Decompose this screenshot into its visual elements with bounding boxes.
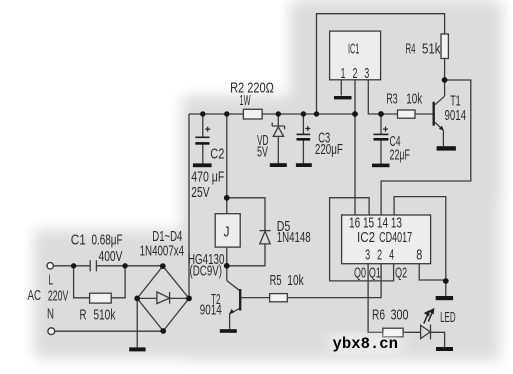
svg-text:51k: 51k xyxy=(422,41,441,58)
svg-text:LED: LED xyxy=(440,309,456,326)
svg-text:AC: AC xyxy=(28,287,42,304)
svg-text:3: 3 xyxy=(364,65,369,82)
svg-text:IC1: IC1 xyxy=(348,41,359,58)
svg-text:1N4007x4: 1N4007x4 xyxy=(140,243,185,260)
svg-text:(DC9V): (DC9V) xyxy=(190,263,223,280)
svg-text:8: 8 xyxy=(416,247,422,264)
svg-text:L: L xyxy=(49,272,54,289)
svg-text:2: 2 xyxy=(353,65,358,82)
svg-text:C1: C1 xyxy=(71,231,86,248)
svg-text:5V: 5V xyxy=(257,143,268,160)
svg-text:470 μF: 470 μF xyxy=(191,169,224,186)
svg-text:300: 300 xyxy=(391,307,409,324)
svg-text:ybx8.cn: ybx8.cn xyxy=(333,335,399,353)
svg-text:R5: R5 xyxy=(270,272,282,289)
svg-text:10k: 10k xyxy=(406,90,422,107)
svg-text:510k: 510k xyxy=(93,307,115,324)
svg-text:R4: R4 xyxy=(406,41,416,58)
svg-text:25V: 25V xyxy=(191,184,209,201)
svg-text:Q2: Q2 xyxy=(395,265,407,282)
svg-text:R6: R6 xyxy=(372,307,385,324)
svg-text:3: 3 xyxy=(365,247,370,264)
svg-text:220V: 220V xyxy=(48,288,69,305)
svg-text:10k: 10k xyxy=(287,272,304,289)
svg-text:220μF: 220μF xyxy=(315,141,343,158)
svg-text:1: 1 xyxy=(341,65,346,82)
svg-text:22μF: 22μF xyxy=(390,147,411,164)
svg-text:4: 4 xyxy=(389,247,394,264)
svg-text:1N4148: 1N4148 xyxy=(277,229,311,246)
svg-text:9014: 9014 xyxy=(445,107,467,124)
svg-text:2: 2 xyxy=(377,247,382,264)
svg-text:R2 220Ω: R2 220Ω xyxy=(230,80,274,97)
svg-text:N: N xyxy=(47,306,54,323)
svg-text:Q0: Q0 xyxy=(354,265,366,282)
svg-text:400V: 400V xyxy=(99,248,123,265)
svg-text:9014: 9014 xyxy=(200,302,222,319)
svg-text:R3: R3 xyxy=(386,90,398,107)
svg-text:CD4017: CD4017 xyxy=(379,229,412,246)
svg-text:C2: C2 xyxy=(210,145,224,162)
svg-text:0.68μF: 0.68μF xyxy=(92,231,123,248)
svg-text:Q1: Q1 xyxy=(369,265,381,282)
svg-text:1W: 1W xyxy=(240,92,251,109)
svg-text:R: R xyxy=(80,307,87,324)
svg-text:J: J xyxy=(224,223,230,240)
svg-text:IC2: IC2 xyxy=(357,229,375,246)
